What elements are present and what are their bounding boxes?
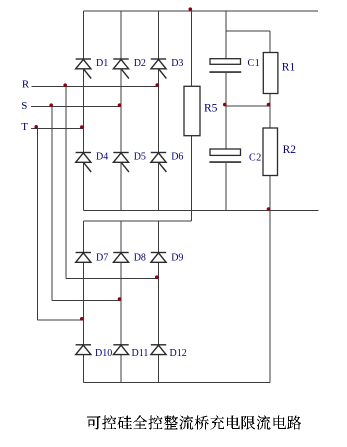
SCR D3	[151, 59, 167, 79]
wire leg 3 upper mid segment	[158, 69, 160, 153]
resistor R2	[263, 128, 278, 176]
wire leg 3 to upper negative bus	[158, 162, 160, 211]
svg-text:D11: D11	[132, 348, 149, 359]
node T link / leg1	[80, 317, 84, 321]
wire R5 branch lower to lower bridge positive bus	[191, 136, 193, 221]
wire R2 bottom to bottom bus	[269, 176, 271, 383]
wire top bus (+ rail)	[83, 10, 318, 12]
diode D7	[76, 253, 91, 263]
svg-text:D1: D1	[96, 58, 108, 69]
wire leg 2 to upper negative bus	[120, 162, 122, 211]
resistor R1	[263, 53, 278, 94]
capacitor C1	[209, 59, 241, 72]
wire R5 branch upper	[191, 11, 193, 86]
wire leg 2 to lower negative bus	[120, 354, 122, 382]
wire leg 2 upper mid segment	[120, 69, 122, 153]
svg-text:D2: D2	[134, 58, 146, 69]
wire leg 3 lower mid segment	[158, 262, 160, 345]
svg-text:D10: D10	[95, 348, 112, 359]
diode D12	[151, 345, 166, 355]
diode D10	[76, 345, 91, 355]
title 可控硅全控整流桥充电限流电路	[87, 416, 301, 430]
wire leg 2 lower bridge top segment	[120, 221, 122, 253]
capacitor C2	[209, 149, 241, 162]
svg-text:R1: R1	[282, 61, 296, 73]
wire C column upper	[225, 11, 227, 59]
diode D9	[151, 253, 166, 263]
wire S drop	[51, 107, 53, 301]
wire T drop	[36, 129, 38, 321]
node negative bus / R column	[267, 207, 271, 211]
wire leg 1 to lower negative bus	[82, 354, 84, 382]
node R link / leg3	[155, 275, 159, 279]
wire leg 2 top bus to D2	[120, 11, 122, 59]
wire T phase bus	[31, 128, 83, 130]
wire leg 3 to lower negative bus	[158, 354, 160, 382]
wire R link to D9/D12 junction	[66, 277, 159, 279]
wire C1/C2 midpoint to R1/R2 midpoint	[226, 105, 270, 107]
wire S phase bus	[31, 106, 121, 108]
wire leg 1 top bus to D1	[82, 11, 84, 59]
svg-text:D8: D8	[134, 252, 146, 263]
wire S link to D8/D11 junction	[52, 299, 121, 301]
svg-text:D7: D7	[96, 252, 108, 263]
node C midpoint	[223, 103, 227, 107]
wire lower bridge negative bus	[83, 381, 270, 383]
svg-text:R2: R2	[283, 144, 297, 156]
wire C2 bottom to negative bus	[225, 163, 227, 211]
wire R1 bottom to R2 top	[269, 94, 271, 129]
wire T link to D7/D10 junction	[37, 319, 83, 321]
svg-text:R: R	[22, 78, 30, 90]
node top bus / R5 branch	[189, 7, 193, 11]
wire leg 3 lower bridge top segment	[158, 221, 160, 253]
svg-text:D4: D4	[96, 152, 108, 163]
svg-text:D5: D5	[134, 152, 146, 163]
svg-text:C1: C1	[248, 58, 261, 69]
svg-text:D12: D12	[170, 348, 187, 359]
node T bus / T drop	[34, 125, 38, 129]
wire jog C column to R1 top	[226, 30, 270, 32]
SCR D1	[76, 59, 92, 79]
node R1/R2 midpoint	[267, 103, 271, 107]
wire R phase bus	[32, 86, 159, 88]
node R bus / R drop	[63, 83, 67, 87]
resistor R5	[184, 86, 200, 135]
node R bus / leg3	[155, 83, 159, 87]
SCR D5	[113, 153, 129, 173]
wire leg 1 to upper negative bus	[82, 162, 84, 211]
node S bus / S drop	[49, 103, 53, 107]
svg-text:R5: R5	[204, 102, 218, 114]
svg-text:D3: D3	[171, 58, 183, 69]
diode D11	[113, 345, 128, 355]
wire R1 top lead	[269, 31, 271, 53]
node S bus / leg2	[118, 103, 122, 107]
wire upper bridge negative bus	[83, 210, 318, 212]
wire leg 1 lower mid segment	[82, 262, 84, 345]
node T bus / leg1	[80, 125, 84, 129]
svg-text:D6: D6	[171, 152, 183, 163]
wire C1 bottom to midpoint to C2 top	[225, 73, 227, 149]
wire leg 1 lower bridge top segment	[82, 221, 84, 253]
SCR D6	[151, 153, 167, 173]
node S link / leg2	[118, 297, 122, 301]
svg-text:C2: C2	[249, 152, 262, 163]
wire R drop	[65, 87, 67, 279]
wire leg 1 upper mid segment	[82, 69, 84, 153]
svg-text:S: S	[21, 100, 27, 112]
SCR D4	[76, 153, 92, 173]
wire leg 2 lower mid segment	[120, 262, 122, 345]
svg-text:D9: D9	[171, 252, 183, 263]
wire leg 3 top bus to D3	[158, 11, 160, 59]
diode D8	[113, 253, 128, 263]
SCR D2	[113, 59, 129, 79]
svg-text:T: T	[21, 121, 28, 133]
wire lower bridge positive bus	[83, 220, 191, 222]
